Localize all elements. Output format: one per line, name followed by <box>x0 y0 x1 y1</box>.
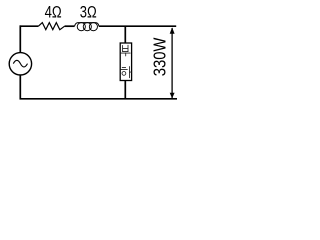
svg-text:3Ω: 3Ω <box>80 3 97 22</box>
svg-text:4Ω: 4Ω <box>45 3 62 22</box>
svg-text:330W: 330W <box>150 37 170 76</box>
